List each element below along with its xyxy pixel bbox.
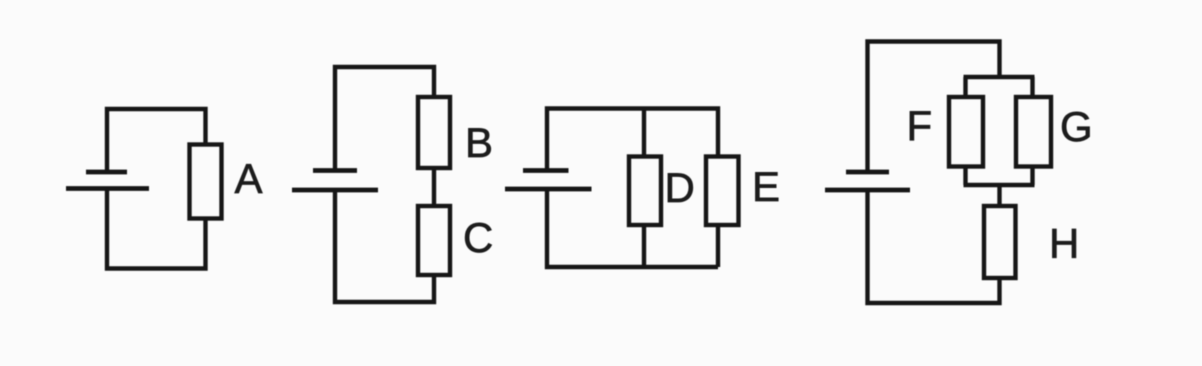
resistor H bbox=[984, 206, 1016, 278]
svg-text:H: H bbox=[1049, 220, 1079, 267]
wire circuit4 left-top-right bbox=[868, 42, 1000, 173]
resistor G bbox=[1016, 97, 1051, 167]
battery B3 long plate bbox=[505, 187, 592, 192]
resistor B bbox=[418, 97, 450, 168]
battery B4 long plate bbox=[825, 188, 910, 193]
wire circuit2 bottom return bbox=[335, 190, 434, 302]
wire circuit3 bottom return bbox=[547, 189, 718, 267]
battery B2 short plate bbox=[313, 168, 357, 173]
svg-text:E: E bbox=[752, 163, 780, 210]
wire circuit4 bottom return bbox=[868, 190, 1000, 303]
svg-text:G: G bbox=[1060, 103, 1093, 150]
battery B1 short plate bbox=[86, 170, 127, 175]
wire middle branch to D bbox=[642, 109, 646, 155]
battery B3 short plate bbox=[523, 168, 569, 173]
wire bottom bar to H bbox=[997, 185, 1001, 204]
resistor F bbox=[949, 97, 983, 167]
battery B4 short plate bbox=[846, 170, 889, 175]
battery B1 long plate bbox=[66, 186, 149, 191]
wire between B and C bbox=[432, 170, 436, 204]
resistor A bbox=[190, 145, 222, 219]
wire circuit1 loop left-top-right bbox=[107, 109, 206, 172]
wire stub F to bottom bar bbox=[963, 169, 967, 186]
wire stub top bar to F bbox=[963, 77, 967, 95]
svg-text:A: A bbox=[235, 155, 263, 202]
wire parallel top bar bbox=[964, 75, 1035, 79]
resistor E bbox=[706, 157, 739, 226]
wire below D bbox=[642, 227, 646, 267]
battery B2 long plate bbox=[292, 188, 378, 193]
svg-text:D: D bbox=[665, 164, 695, 211]
wire circuit1 bottom return bbox=[107, 189, 206, 269]
resistor D bbox=[629, 157, 661, 226]
wire circuit3 left-top-right bbox=[547, 109, 718, 171]
wire stub G to bottom bar bbox=[1030, 169, 1034, 186]
wire stub top bar to G bbox=[1030, 77, 1034, 95]
wire circuit2 left-top-right bbox=[335, 67, 434, 171]
resistor C bbox=[418, 206, 450, 275]
svg-text:B: B bbox=[465, 119, 493, 166]
svg-text:F: F bbox=[907, 102, 933, 149]
wire below E bbox=[716, 227, 720, 267]
wire parallel bottom bar bbox=[964, 183, 1035, 187]
svg-text:C: C bbox=[463, 214, 493, 261]
